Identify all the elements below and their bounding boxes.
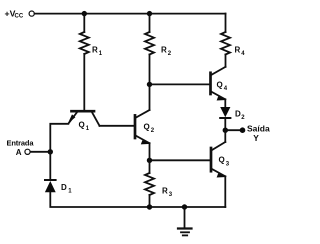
ground [178,207,192,235]
node Y: output junction [223,128,228,133]
wire: node B to Q4 base [150,83,210,85]
wire: R4 to Q4 collector [225,55,227,67]
wire: top rail to R1 [83,14,85,32]
wire: input terminal to node A [30,151,50,153]
wire: R2 to node B [149,55,151,85]
node: top rail / R2 junction [147,11,152,16]
resistor R3 [145,173,173,198]
wire: output node to terminal [225,129,242,131]
svg-text:2: 2 [151,128,155,134]
svg-text:2: 2 [168,51,172,57]
wire: node C to R3 [149,160,151,173]
resistor R2 [145,32,172,57]
svg-text:3: 3 [226,161,230,167]
wire: R2 bottom to Q2 collector [149,84,151,110]
node: top rail / R1 junction [82,11,87,16]
node: ground junction on bottom rail [182,204,187,209]
wire: Q2 emitter down to node C [149,143,151,160]
resistor R4 [221,32,245,57]
wire: Q3 collector to output node [224,130,226,142]
svg-text:R: R [162,186,168,195]
+Vcc terminal [5,9,35,20]
transistor Q3 [211,142,230,178]
wire: D1 to bottom rail [50,192,149,207]
svg-text:Q: Q [219,156,225,165]
svg-text:Y: Y [253,133,259,143]
diode D2 [220,107,245,121]
diode D1 [45,180,72,195]
wire: D2 to output node [224,118,226,130]
wire: node A to D1 [49,152,51,180]
svg-text:2: 2 [241,115,245,121]
wire: R1 to Q1 base [83,54,85,110]
node B: R2 / Q2 collector / Q4 base junction [147,82,152,87]
svg-text:3: 3 [169,192,173,198]
output terminal Saida Y [240,123,270,143]
svg-text:4: 4 [241,51,245,57]
wire: R3 to bottom rail [149,195,151,207]
wire: Q4 emitter to D2 [224,99,226,107]
svg-text:1: 1 [68,189,72,195]
transistor Q4 [211,67,228,101]
svg-text:1: 1 [86,126,90,132]
wire: Q1 collector to Q2 base [100,125,135,127]
svg-text:D: D [61,183,67,192]
wire: top rail corner down to R4 [225,14,227,32]
svg-text:CC: CC [15,14,24,20]
wire: top rail to R2 [149,14,151,32]
node A (input junction) [48,149,53,154]
resistor R1 [80,32,103,57]
svg-text:Q: Q [144,122,150,131]
svg-text:A: A [16,148,22,157]
svg-text:R: R [235,46,241,55]
svg-text:4: 4 [224,86,228,92]
wire: bottom rail [150,206,226,208]
transistor Q1 [68,111,100,132]
input terminal Entrada A [7,139,35,157]
svg-text:Q: Q [79,121,85,130]
svg-text:Entrada: Entrada [7,139,35,148]
svg-text:R: R [161,46,167,55]
wire: Q2 emitter node to Q3 base [150,159,211,161]
wire: Q1 emitter to input node [50,124,68,152]
svg-text:R: R [92,46,98,55]
svg-text:Saída: Saída [247,123,270,133]
svg-text:D: D [235,109,241,118]
svg-text:1: 1 [99,51,103,57]
node C: Q2 emitter / R3 / Q3 base junction [147,158,152,163]
svg-text:Q: Q [217,81,223,90]
transistor Q2 [135,110,155,144]
wire: Q3 emitter to bottom rail [224,176,226,207]
node: R3 / bottom rail junction [147,204,152,209]
wire: Vcc top rail [35,13,226,15]
